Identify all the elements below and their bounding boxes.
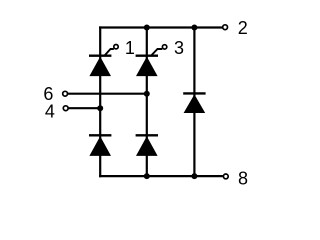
diode lower column 1 (anode down) [89,135,111,156]
junction top rail / column 2 [144,25,150,31]
wire AC input line to node 6 [68,93,147,95]
svg-text:2: 2 [238,18,248,38]
svg-text:3: 3 [174,38,184,58]
terminal node 6 [63,91,68,96]
wire column 3 vertical [193,26,195,177]
thyristor gate 1 (column 1, cathode up) [89,45,118,77]
diode lower column 2 (anode down) [136,135,158,156]
svg-text:8: 8 [238,169,248,189]
svg-text:4: 4 [45,102,55,122]
wire AC input line to node 4 [69,107,101,109]
terminal node 4 [63,106,68,111]
junction bottom rail / column 2 [144,173,150,179]
terminal node 2 [223,25,228,30]
wire top rail (node 2 net) [99,26,222,28]
junction bottom rail / column 3 [191,173,197,179]
freewheel diode column 3 (anode down) [183,93,205,113]
junction node 6 / column 2 [144,91,150,97]
wire column 1 vertical [99,26,101,177]
junction top rail / column 3 [191,25,197,31]
terminal node 8 [223,174,228,179]
junction node 4 / column 1 [97,105,103,111]
thyristor gate 3 (column 2, cathode up) [136,45,167,76]
wire bottom rail (node 8 net) [99,175,223,177]
svg-text:1: 1 [125,38,135,58]
wire column 2 vertical [146,26,148,177]
